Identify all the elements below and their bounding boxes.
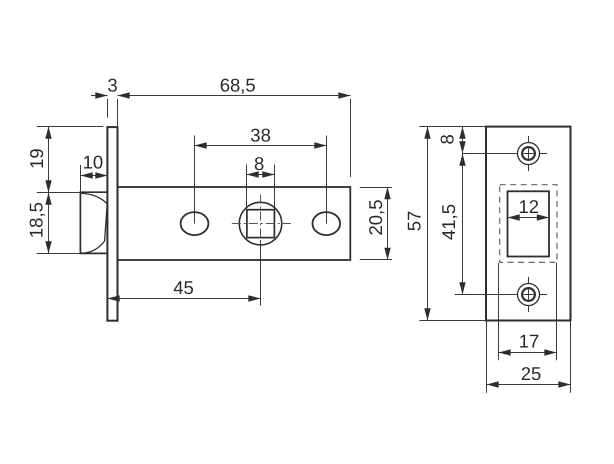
spindle vertical centerline [260, 195, 262, 241]
bottom screw hole outer circle [518, 284, 540, 306]
svg-text:12: 12 [519, 196, 540, 217]
right round hole [313, 212, 341, 235]
dim 8 extension right [274, 165, 276, 210]
dim 20,5 extension top [360, 187, 392, 189]
dim 20,5 extension bottom [360, 259, 392, 261]
bottom screw hole cross [524, 290, 534, 300]
dim 45 line [108, 298, 261, 300]
spindle horizontal centerline [232, 223, 291, 225]
dim 68,5 extension right [350, 99, 352, 177]
svg-text:57: 57 [404, 211, 425, 232]
top screw hole outer circle [518, 143, 540, 165]
svg-text:8: 8 [254, 153, 264, 174]
dim 10 extension left [80, 165, 82, 192]
bottom screw hole centerline to dimension [455, 294, 518, 296]
spindle square hole [247, 210, 275, 238]
svg-text:41,5: 41,5 [438, 204, 459, 240]
bottom screw hole inner circle [522, 288, 535, 301]
dim 38 extension left [194, 136, 196, 224]
plate top edge extension [419, 126, 486, 128]
dim 20,5 line [387, 187, 389, 260]
spindle circle [239, 202, 282, 245]
dim 12 line [508, 217, 550, 219]
dim 57 line [427, 127, 429, 321]
svg-text:38: 38 [250, 125, 271, 146]
dim 8 right view line [462, 127, 464, 154]
svg-text:68,5: 68,5 [220, 75, 256, 96]
dim 38 line [195, 145, 327, 147]
dim 3 left arrow [91, 95, 108, 97]
dim 3 extension right [117, 99, 119, 127]
bottom screw hole tick marks [529, 277, 548, 312]
dim 25 extension left [486, 321, 488, 393]
svg-text:17: 17 [519, 331, 540, 352]
latch body (side view) [118, 187, 351, 260]
svg-text:18,5: 18,5 [26, 202, 47, 238]
svg-text:25: 25 [521, 363, 542, 384]
dim 17 line [499, 352, 557, 354]
svg-text:20,5: 20,5 [365, 199, 386, 235]
dim 8 extension left [246, 165, 248, 210]
dim 3 extension left [107, 99, 109, 118]
top screw hole inner circle [522, 147, 535, 160]
dashed cutout region [500, 185, 557, 263]
svg-text:19: 19 [26, 148, 47, 169]
top screw hole centerline to dimension [463, 153, 518, 155]
svg-text:3: 3 [107, 75, 117, 96]
dim 17 extension left [498, 263, 500, 360]
latch faceplate (side view) [107, 127, 117, 321]
latch bolt outline [80, 192, 107, 253]
svg-text:45: 45 [173, 277, 194, 298]
dim 25 line [487, 384, 571, 386]
dim 38 extension right [326, 136, 328, 224]
strike plate (front view) [486, 127, 571, 321]
dim 10 line [81, 175, 108, 177]
latch bolt bevel curve [81, 193, 107, 253]
svg-text:8: 8 [437, 134, 458, 144]
dim 45 extension right (square centerline) [260, 240, 262, 306]
dim 18,5 line [48, 193, 50, 254]
dim 68,5 line [118, 95, 351, 97]
faceplate top extension line [37, 126, 104, 128]
top screw hole cross [524, 149, 534, 159]
svg-text:10: 10 [83, 152, 104, 173]
latch opening rectangle [508, 191, 550, 256]
dim 25 extension right [570, 321, 572, 393]
dim 41,5 line [462, 154, 464, 295]
top screw hole tick marks [529, 136, 548, 171]
dim 17 extension right [556, 263, 558, 360]
dim 19 line [48, 127, 50, 193]
dim 8 line [247, 174, 275, 176]
plate bottom edge extension [419, 320, 486, 322]
bolt bottom extension line [37, 253, 81, 255]
left round hole [181, 212, 209, 235]
bolt top extension line [37, 192, 81, 194]
